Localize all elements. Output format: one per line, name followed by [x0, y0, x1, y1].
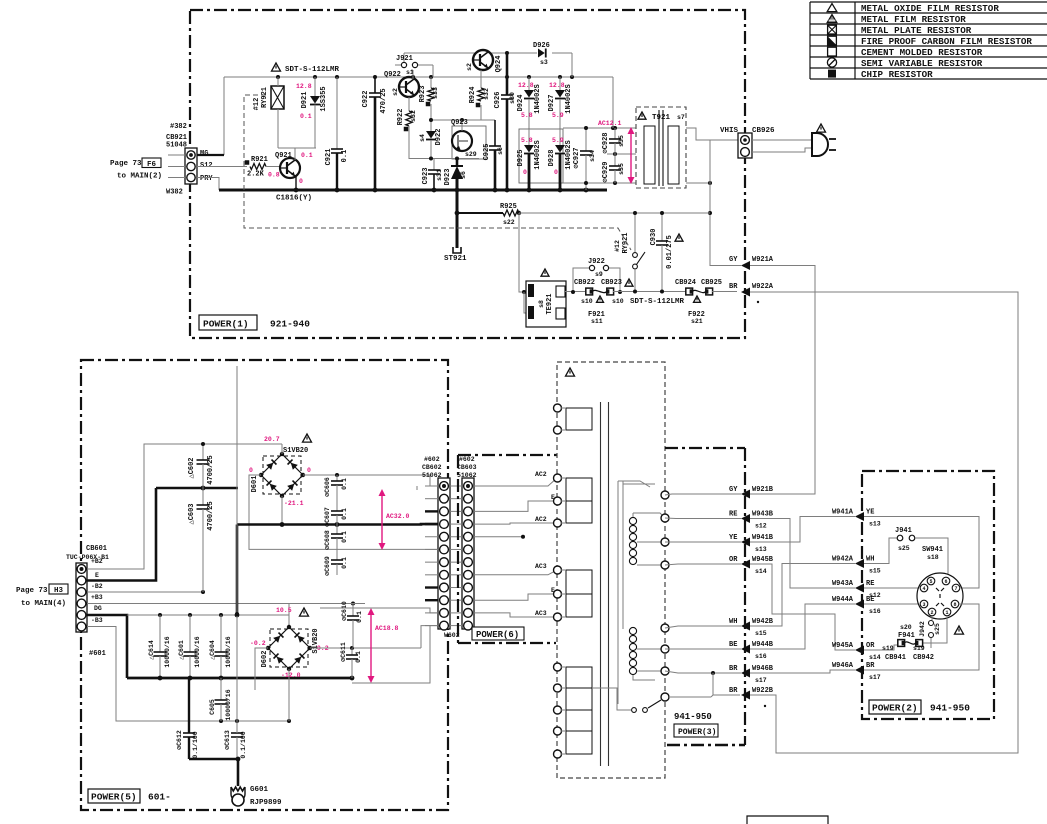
svg-text:921-940: 921-940: [270, 319, 310, 330]
svg-text:W944A: W944A: [832, 596, 854, 604]
fuse F922 CB924 CB925: [675, 279, 722, 325]
svg-text:s6: s6: [460, 171, 467, 179]
svg-text:AC3: AC3: [535, 610, 547, 617]
fuse F921 CB922 CB923: [574, 279, 624, 325]
warning POWER2: [955, 626, 964, 634]
main bus POWER(5): [235, 522, 439, 617]
svg-text:△C614: △C614: [148, 640, 155, 660]
capacitor C603: [188, 488, 215, 592]
svg-text:3: 3: [922, 602, 925, 608]
svg-text:D921: D921: [301, 92, 309, 109]
svg-text:s14: s14: [869, 654, 881, 661]
svg-text:CB922: CB922: [574, 279, 595, 287]
arrow W922A: [729, 283, 774, 303]
svg-text:J922: J922: [588, 258, 605, 266]
arrow W921A: [710, 256, 774, 270]
svg-text:0.1: 0.1: [355, 651, 362, 663]
wire E thick: [87, 488, 156, 581]
POWER(1) label: [199, 315, 310, 330]
svg-text:51048: 51048: [166, 142, 187, 150]
svg-text:#601: #601: [89, 650, 106, 658]
svg-text:C923: C923: [422, 168, 430, 185]
warning D602: [300, 608, 309, 616]
wire Q921 emitter to bus: [295, 176, 297, 190]
svg-text:1SS355: 1SS355: [320, 86, 328, 111]
svg-text:s32: s32: [483, 88, 490, 100]
svg-text:s32: s32: [410, 110, 417, 122]
wire to W944B: [665, 648, 741, 650]
wire TE921 to F921: [565, 291, 585, 293]
svg-text:W943A: W943A: [832, 580, 854, 588]
relay contact RY921 s12: [614, 211, 645, 294]
svg-text:to MAIN(4): to MAIN(4): [21, 600, 66, 608]
svg-text:F6: F6: [147, 161, 157, 169]
capacitor C610: [341, 601, 363, 648]
arrow W943B: [729, 511, 774, 530]
warning near CB923: [625, 279, 633, 286]
capacitor C928: [602, 128, 625, 154]
svg-text:W942B: W942B: [752, 618, 774, 626]
svg-text:#12: #12: [253, 98, 261, 111]
bottom corner box: [747, 816, 828, 824]
svg-text:s14: s14: [755, 568, 767, 575]
svg-text:4700/25: 4700/25: [207, 501, 215, 530]
svg-text:CB924: CB924: [675, 279, 696, 287]
arrow W945B: [729, 556, 774, 575]
arrow W941A: [832, 509, 881, 528]
wire AC3 top: [474, 563, 557, 575]
jumper J921: [395, 53, 433, 77]
capacitor C925: [483, 120, 504, 190]
svg-text:5.9: 5.9: [552, 137, 564, 144]
connector CB601: [66, 545, 109, 658]
svg-text:D922: D922: [435, 129, 443, 146]
svg-text:BR: BR: [729, 283, 738, 291]
svg-text:D928: D928: [548, 150, 556, 167]
svg-text:CB941: CB941: [885, 654, 906, 662]
svg-text:s18: s18: [927, 554, 939, 561]
bridge D601: [251, 447, 308, 498]
POWER(2) label: [869, 700, 970, 714]
capacitor C922: [362, 77, 388, 190]
wire to W941B: [665, 541, 741, 543]
wire F921 to contact: [613, 291, 686, 293]
svg-text:BR: BR: [729, 665, 738, 673]
wire D601 bottom: [280, 496, 285, 527]
svg-text:C922: C922: [362, 91, 370, 108]
svg-text:1: 1: [945, 610, 948, 616]
wire MG feed: [197, 154, 224, 156]
svg-text:W945B: W945B: [752, 556, 774, 564]
svg-text:J921: J921: [396, 55, 413, 63]
POWER(6) boundary left: [458, 455, 556, 643]
svg-text:⊘C612: ⊘C612: [176, 730, 183, 750]
svg-text:s2: s2: [466, 63, 473, 71]
wire DG thick: [87, 615, 127, 678]
wire W945B to W945A: [750, 564, 855, 650]
wire to W942B: [665, 626, 741, 628]
resistor R925: [500, 203, 521, 226]
svg-text:AC18.8: AC18.8: [375, 625, 399, 632]
capacitor C612: [176, 678, 199, 759]
wire D602 right: [310, 626, 439, 650]
svg-text:0.1: 0.1: [341, 478, 348, 490]
svg-text:⊘C927: ⊘C927: [573, 147, 581, 168]
relay coil RY921: [253, 77, 284, 148]
svg-text:J942: J942: [919, 621, 926, 637]
svg-text:0: 0: [554, 169, 558, 176]
svg-text:D602: D602: [261, 651, 269, 668]
ground bus POWER(5) lower: [127, 676, 354, 681]
arrow W942A: [832, 556, 881, 575]
svg-text:WH: WH: [729, 618, 737, 626]
svg-text:CB923: CB923: [601, 279, 622, 287]
svg-text:D601: D601: [251, 476, 259, 493]
svg-text:RE: RE: [866, 580, 874, 588]
resistor R923: [419, 77, 439, 120]
wire D602 bottom: [288, 669, 290, 721]
wire pin1 to fuse: [923, 616, 947, 643]
svg-text:-12.0: -12.0: [281, 672, 301, 679]
wire W941B to W941A: [750, 517, 855, 543]
svg-text:C605: C605: [209, 699, 216, 715]
svg-text:0.1: 0.1: [341, 531, 348, 543]
wire W943B to W943A: [750, 519, 855, 589]
arrow W943A: [832, 580, 881, 599]
svg-text:10000/16: 10000/16: [164, 636, 171, 667]
svg-text:-B2: -B2: [91, 583, 103, 590]
connector CB602: [422, 456, 460, 639]
wire W921A loop: [750, 266, 815, 495]
svg-text:s4: s4: [419, 134, 426, 142]
svg-text:W943B: W943B: [752, 511, 774, 519]
transistor Q922: [384, 71, 419, 97]
jumper J922: [571, 258, 622, 294]
arrow W946B: [729, 665, 774, 684]
svg-text:W941B: W941B: [752, 534, 774, 542]
svg-text:51062: 51062: [422, 472, 442, 479]
svg-text:D923: D923: [444, 169, 452, 186]
wire R925 feed: [457, 212, 503, 214]
wire AC32 top: [416, 486, 418, 490]
svg-text:12.8: 12.8: [518, 82, 534, 89]
secondary taps: [633, 542, 661, 680]
svg-text:△C602: △C602: [188, 457, 196, 478]
svg-text:5.8: 5.8: [521, 112, 533, 119]
svg-text:s6: s6: [497, 147, 504, 155]
wire R921 to Q921 base: [266, 166, 280, 168]
svg-text:W946B: W946B: [752, 665, 774, 673]
svg-text:PRY: PRY: [200, 175, 213, 183]
svg-text:Page 73: Page 73: [16, 587, 48, 595]
svg-text:D926: D926: [533, 42, 550, 50]
svg-text:DG: DG: [94, 605, 102, 612]
svg-text:s10: s10: [612, 298, 624, 305]
svg-text:BE: BE: [729, 641, 737, 649]
svg-text:BE: BE: [866, 596, 874, 604]
svg-text:10000/16: 10000/16: [194, 636, 201, 667]
resistor R924: [469, 70, 490, 120]
arrow W945A: [832, 642, 881, 661]
svg-text:SW941: SW941: [922, 546, 943, 554]
thermal switch: [592, 688, 661, 712]
capacitor C930: [650, 211, 683, 294]
svg-text:Q922: Q922: [384, 71, 401, 79]
wire PRY to bus: [197, 178, 219, 191]
jumper J942: [919, 621, 941, 649]
svg-text:W921B: W921B: [752, 486, 774, 494]
svg-text:s20: s20: [900, 624, 912, 631]
transformer T921: [636, 107, 686, 188]
wire S12 to R921: [197, 166, 247, 168]
ground bus POWER(5) upper: [156, 486, 238, 491]
svg-text:-21.1: -21.1: [284, 500, 304, 507]
svg-text:#382: #382: [170, 123, 187, 131]
svg-text:s3: s3: [540, 59, 548, 66]
svg-text:s13: s13: [755, 546, 767, 553]
svg-text:s19: s19: [882, 645, 894, 652]
values D925: [521, 137, 533, 176]
primary winding group2 AC2: [554, 474, 593, 527]
svg-text:s17: s17: [755, 677, 767, 684]
svg-text:CB942: CB942: [913, 654, 934, 662]
svg-text:1N4002S: 1N4002S: [534, 84, 542, 113]
svg-text:20.7: 20.7: [264, 436, 280, 443]
POWER(1) enclosure box: [190, 10, 745, 338]
svg-text:0: 0: [523, 169, 527, 176]
svg-text:8: 8: [953, 602, 956, 608]
arrow W942B: [729, 618, 774, 637]
svg-text:R922: R922: [397, 109, 405, 126]
svg-text:s25: s25: [934, 623, 941, 635]
svg-text:941-950: 941-950: [930, 703, 970, 714]
terminal TE921: [526, 269, 566, 327]
wire D601 left: [249, 475, 439, 549]
rotary switch SW941: [917, 546, 963, 619]
svg-text:0: 0: [307, 467, 311, 474]
svg-text:s15: s15: [755, 630, 767, 637]
wire R925 to node: [519, 212, 710, 214]
svg-text:F941: F941: [898, 632, 915, 640]
svg-text:0.1: 0.1: [341, 508, 348, 520]
svg-text:W921A: W921A: [752, 256, 774, 264]
svg-text:J941: J941: [895, 527, 912, 535]
wire W942B to W942A: [750, 564, 855, 627]
wire E mid2: [474, 587, 557, 600]
wire top line y53: [404, 51, 572, 77]
svg-text:Q921: Q921: [275, 152, 292, 160]
wire pin8 to W946A: [864, 604, 979, 670]
POWER(6) boundary: [458, 454, 557, 456]
dashed mechanical link: [244, 95, 631, 250]
POWER(6) label: [472, 627, 524, 640]
svg-text:s16: s16: [755, 653, 767, 660]
svg-text:C1816(Y): C1816(Y): [276, 195, 312, 203]
svg-text:C926: C926: [494, 92, 502, 109]
svg-text:E: E: [95, 572, 99, 579]
svg-text:1N4002S: 1N4002S: [534, 140, 542, 169]
capacitor C923: [422, 159, 443, 191]
secondary coil group1: [629, 513, 665, 565]
svg-text:s35: s35: [618, 135, 625, 147]
svg-text:s30: s30: [509, 92, 516, 104]
arrow W941B: [729, 534, 774, 553]
svg-text:5: 5: [929, 579, 932, 585]
jumper J941: [895, 527, 915, 552]
svg-text:#12: #12: [614, 240, 621, 252]
wire W946B to W946A: [750, 670, 855, 673]
svg-text:W922A: W922A: [752, 283, 774, 291]
svg-text:RE: RE: [729, 511, 737, 519]
svg-text:s2: s2: [392, 88, 399, 96]
AC plug: [812, 124, 836, 156]
svg-text:YE: YE: [729, 534, 737, 542]
svg-text:6: 6: [944, 579, 947, 585]
svg-text:W941A: W941A: [832, 509, 854, 517]
svg-text:51062: 51062: [457, 472, 477, 479]
values D601: [249, 436, 311, 507]
svg-text:s22: s22: [503, 219, 515, 226]
value AC12.1: [598, 120, 635, 184]
fuse F941 CB941 CB942: [882, 624, 934, 662]
svg-text:WH: WH: [866, 556, 874, 564]
svg-text:12.8: 12.8: [549, 82, 565, 89]
POWER(5) enclosure box: [81, 360, 448, 810]
svg-text:0.1: 0.1: [301, 152, 313, 159]
resistor R921: [245, 156, 268, 179]
wire W922A long: [748, 292, 1018, 753]
wires CB602 to CB603: [450, 486, 462, 626]
svg-text:s16: s16: [869, 608, 881, 615]
POWER(3) label: [674, 712, 718, 737]
transistor Q923: [451, 119, 486, 159]
svg-text:METAL FILM RESISTOR: METAL FILM RESISTOR: [861, 14, 966, 25]
svg-text:△C601: △C601: [178, 640, 185, 660]
wire to W922B: [669, 673, 740, 697]
node wire vertical x710: [708, 140, 712, 266]
wire AC3 bottom: [474, 610, 557, 617]
svg-text:10000/16: 10000/16: [225, 636, 232, 667]
svg-text:R925: R925: [500, 203, 517, 211]
svg-text:s7: s7: [677, 114, 685, 121]
capacitor C613: [224, 719, 247, 759]
svg-text:0.1: 0.1: [341, 557, 348, 569]
svg-text:W382: W382: [166, 189, 183, 197]
wire pin2 to J942: [931, 616, 933, 620]
svg-text:C925: C925: [483, 144, 491, 161]
primary winding group4: [554, 663, 593, 758]
svg-text:AC12.1: AC12.1: [598, 120, 622, 127]
svg-text:CB603: CB603: [457, 464, 477, 471]
svg-text:BR: BR: [866, 662, 875, 670]
diode D921: [301, 77, 328, 148]
connector CB921: [166, 123, 213, 197]
svg-text:0.1: 0.1: [300, 113, 312, 120]
secondary pins: [661, 491, 669, 701]
svg-text:s35: s35: [618, 163, 625, 175]
svg-text:0.8: 0.8: [268, 172, 280, 179]
period mark: [764, 705, 766, 707]
svg-text:POWER(1): POWER(1): [203, 319, 249, 330]
svg-text:METAL PLATE RESISTOR: METAL PLATE RESISTOR: [861, 25, 972, 36]
svg-text:s11: s11: [591, 318, 603, 325]
primary winding group3 AC3: [554, 566, 593, 621]
svg-text:5.9: 5.9: [552, 112, 564, 119]
wire E mid: [474, 494, 557, 511]
svg-text:s15: s15: [869, 568, 881, 575]
bridge D602: [261, 625, 320, 671]
svg-text:⊘C611: ⊘C611: [340, 642, 347, 662]
wire AC18 bottom: [352, 626, 430, 683]
wire stubs into CB602: [425, 486, 438, 626]
svg-text:#602: #602: [459, 456, 475, 463]
svg-text:s10: s10: [581, 298, 593, 305]
svg-text:CEMENT MOLDED RESISTOR: CEMENT MOLDED RESISTOR: [861, 47, 983, 58]
svg-text:R923: R923: [419, 86, 427, 103]
svg-text:s21: s21: [691, 318, 703, 325]
connector CB603: [457, 456, 477, 630]
svg-text:⊘C607: ⊘C607: [324, 507, 331, 527]
svg-text:s9: s9: [595, 271, 603, 278]
svg-text:Q924: Q924: [495, 56, 503, 73]
svg-text:s8: s8: [538, 300, 545, 308]
svg-text:AC3: AC3: [535, 563, 547, 570]
svg-text:W944B: W944B: [752, 641, 774, 649]
svg-text:0: 0: [299, 178, 303, 185]
svg-text:⊘C929: ⊘C929: [602, 161, 610, 182]
wire top rail: [224, 75, 613, 155]
wire D601 top: [281, 444, 283, 454]
wire stubs CB921: [168, 155, 185, 178]
capacitor C926: [494, 53, 516, 190]
svg-text:7: 7: [954, 586, 957, 592]
wire Q922 collector: [412, 70, 414, 79]
svg-text:s17: s17: [869, 674, 881, 681]
svg-text:2.2K: 2.2K: [247, 171, 265, 179]
wire F922 to arrow: [712, 291, 737, 293]
svg-text:POWER(6): POWER(6): [476, 630, 519, 640]
svg-text:0.01/275: 0.01/275: [666, 235, 674, 269]
transformer core: [601, 402, 609, 766]
wire secondary bottom: [563, 181, 636, 185]
arrow W946A: [832, 662, 881, 681]
svg-text:R921: R921: [251, 156, 268, 164]
svg-text:941-950: 941-950: [674, 712, 712, 722]
svg-text:⊘C609: ⊘C609: [324, 556, 331, 576]
secondary feed wires: [618, 481, 655, 704]
diode D928: [548, 129, 573, 190]
svg-text:POWER(2): POWER(2): [872, 703, 918, 714]
values D924: [518, 82, 534, 119]
svg-text:FIRE PROOF CARBON FILM RESIST: FIRE PROOF CARBON FILM RESISTOR: [861, 36, 1032, 47]
svg-text:△C604: △C604: [209, 640, 216, 660]
svg-text:W942A: W942A: [832, 556, 854, 564]
svg-text:BR: BR: [729, 687, 738, 695]
svg-text:⊘C613: ⊘C613: [224, 730, 231, 750]
svg-text:⊘C928: ⊘C928: [602, 132, 610, 153]
arrow W944A: [832, 596, 881, 615]
svg-text:RJP9899: RJP9899: [250, 799, 282, 807]
wire W945A to fuse: [864, 645, 898, 650]
box around D925 D928: [519, 129, 563, 183]
svg-text:0.1/100: 0.1/100: [192, 731, 199, 758]
svg-text:VHIS: VHIS: [720, 127, 739, 135]
values D928: [552, 137, 564, 176]
capacitor C921: [325, 77, 349, 190]
svg-text:SDT-S-112LMR: SDT-S-112LMR: [285, 66, 340, 74]
diode D923 thick: [444, 159, 467, 191]
svg-text:AC2: AC2: [535, 516, 547, 523]
